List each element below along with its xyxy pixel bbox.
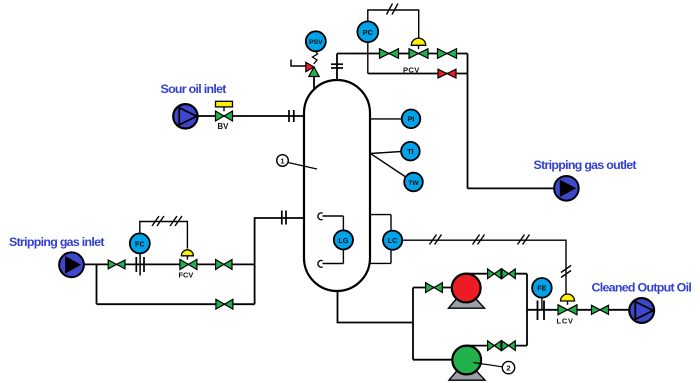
instrument FE (532, 278, 552, 298)
wire: gas riser to vessel nozzle (255, 218, 304, 304)
PCV actuator diaphragm (411, 38, 425, 49)
signal break on LCV drop (561, 266, 571, 278)
svg-text:FC: FC (135, 239, 145, 248)
svg-text:Stripping gas outlet: Stripping gas outlet (534, 158, 637, 172)
wire: gas bypass down leg (96, 264, 98, 304)
valve red pump suction (426, 283, 443, 293)
valve pair red discharge (488, 269, 516, 279)
valve cleaned oil outlet (592, 305, 609, 314)
wire: gas bypass run (97, 303, 255, 305)
valve on gas header (right) (438, 49, 457, 59)
svg-text:LC: LC (388, 236, 398, 245)
flange pair at gas nozzle (282, 211, 286, 225)
valve gas inlet isolation (108, 260, 125, 269)
wire: relief vent outlet (291, 60, 307, 67)
wire: gas outlet drop (467, 54, 469, 189)
svg-text:PCV: PCV (403, 65, 420, 74)
pump P4 (red) (452, 274, 481, 303)
svg-text:TW: TW (408, 180, 419, 187)
orifice flange pair for FC (136, 254, 144, 276)
valve pair green discharge (488, 341, 516, 351)
node 2 balloon (502, 361, 514, 373)
level controller LC bracket wires (371, 215, 392, 264)
instrument PI (402, 110, 421, 129)
svg-text:FCV: FCV (179, 271, 194, 280)
instrument TW (404, 173, 423, 192)
node 2 leader wire (474, 363, 503, 367)
valve gas inlet downstream (216, 260, 232, 270)
relief valve PSV body (green/red angle valve) (306, 62, 319, 76)
wire: gas outlet run to compressor (468, 187, 555, 189)
instrument FC (130, 233, 150, 253)
signal break 1 on LC line (430, 235, 442, 245)
signal break symbol on PC line (387, 4, 399, 15)
FE stem wire (541, 298, 543, 310)
valve on gas header (left) (380, 49, 399, 59)
block valve BV with handle (216, 101, 233, 121)
node 1 balloon (277, 155, 289, 167)
pump P1 sour oil feed (173, 104, 197, 128)
wire: cleaned oil line (527, 309, 629, 311)
flange pair on sour oil line (289, 110, 294, 122)
bypass valve (red) (438, 69, 456, 78)
pump base (red pump) (449, 299, 485, 309)
svg-text:Sour oil inlet: Sour oil inlet (161, 82, 227, 96)
FCV actuator diaphragm (181, 250, 193, 260)
orifice flange pair for FE (538, 301, 545, 321)
svg-text:PC: PC (363, 28, 374, 37)
wire: PC stem down to bypass (367, 42, 369, 74)
svg-text:PSV: PSV (309, 39, 323, 46)
wire: TI tap (371, 152, 402, 154)
signal break 2 on LC line (473, 235, 485, 245)
pump P5 (green) (452, 346, 481, 375)
flange pair on top nozzle (331, 64, 343, 68)
gauge glass LG bracket wires (318, 213, 343, 267)
svg-text:PI: PI (408, 115, 415, 124)
LCV actuator diaphragm (561, 294, 575, 305)
wire: red pump discharge (466, 273, 527, 275)
instrument LC (383, 231, 402, 250)
svg-text:Cleaned Output Oil: Cleaned Output Oil (592, 281, 692, 295)
wire: vessel bottoms outlet (338, 291, 414, 323)
signal break 3 on LC line (518, 235, 530, 245)
wire: TW tap (diagonal) (371, 154, 406, 177)
wire: green pump discharge (467, 345, 527, 347)
svg-text:FE: FE (537, 284, 546, 293)
wire: vessel top nozzle riser (336, 54, 338, 81)
LC signal wire to LCV (402, 240, 566, 294)
wire: red pump suction (413, 287, 452, 289)
wire: green pump suction (413, 359, 452, 361)
svg-text:BV: BV (218, 122, 230, 131)
signal break 2 on FC line (170, 216, 182, 226)
control valve FCV body (180, 259, 197, 269)
wire: relief inlet from vessel top (313, 72, 315, 89)
pump P2 stripping gas blower (59, 252, 84, 277)
node 1 leader wire (288, 163, 317, 170)
wire: pump discharge manifold (526, 274, 528, 346)
wire: stripping gas main line (84, 263, 255, 265)
PSV zigzag signal wire (313, 51, 318, 64)
wire: overhead gas header (337, 53, 468, 55)
vessel column (stripper) (304, 80, 370, 291)
PC signal wire to PCV actuator (368, 10, 419, 39)
wire: sour oil feed line (198, 115, 304, 117)
wire: PI tap (370, 118, 402, 120)
valve gas bypass (216, 299, 233, 309)
svg-text:1: 1 (280, 156, 284, 165)
control valve LCV body (558, 305, 577, 315)
wire: PCV bypass line (368, 73, 468, 75)
pump P3 stripping gas outlet (554, 176, 579, 201)
instrument PC (357, 21, 378, 42)
svg-text:TI: TI (407, 147, 413, 156)
signal break 1 on FC line (152, 216, 164, 226)
svg-text:Stripping gas inlet: Stripping gas inlet (9, 235, 104, 249)
FC signal wire to FCV (140, 222, 188, 249)
control valve PCV body (409, 49, 428, 59)
instrument TI (401, 142, 420, 161)
pump base (green pump) (449, 371, 485, 381)
instrument PSV (306, 31, 326, 51)
wire: pump suction manifold (412, 288, 414, 360)
svg-text:LCV: LCV (557, 317, 574, 326)
instrument LG (334, 230, 353, 249)
pump P6 cleaned oil transfer (629, 298, 654, 323)
svg-text:2: 2 (506, 364, 510, 373)
svg-text:LG: LG (338, 236, 348, 245)
